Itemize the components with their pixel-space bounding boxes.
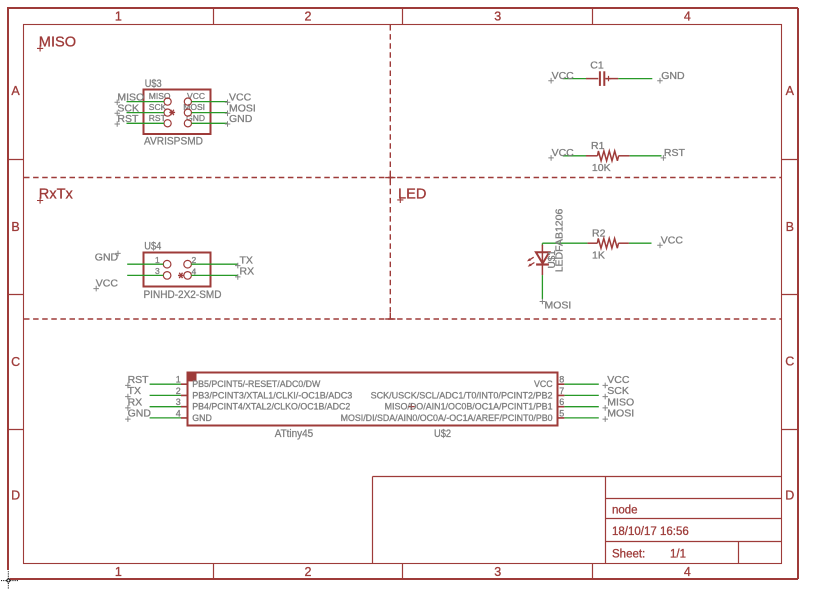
svg-text:6: 6 [559, 397, 564, 407]
U$3 origin star [169, 110, 175, 115]
C1 left lead [586, 78, 598, 80]
svg-text:MOSI: MOSI [183, 102, 205, 112]
svg-text:U$2: U$2 [434, 428, 451, 440]
LED arrow 2 [529, 263, 534, 266]
wire VCC to C1 [563, 78, 586, 80]
wire U$2 pin7 to SCK [564, 394, 598, 396]
svg-text:D: D [11, 489, 20, 503]
wire U$3 to MOSI [192, 112, 228, 114]
wire GND to U$4 pin1 [127, 263, 163, 265]
LED U$1 LEDFAB1206 [527, 209, 566, 276]
print registration mark bottom-left [1, 571, 18, 588]
svg-text:TX: TX [128, 385, 141, 397]
svg-text:GND: GND [192, 413, 212, 423]
svg-text:MISO: MISO [39, 34, 76, 50]
net label SCK [115, 103, 139, 117]
U$2 pin stubs right [557, 384, 564, 418]
svg-text:VCC: VCC [552, 147, 575, 159]
frame bottom column ticks [214, 564, 593, 580]
U$2 corner square [188, 372, 197, 381]
svg-text:PINHD-2X2-SMD: PINHD-2X2-SMD [144, 289, 222, 301]
title block outline [373, 477, 782, 564]
R1 right lead [619, 155, 630, 157]
dashed separator vertical [389, 25, 391, 319]
R1 zigzag [598, 151, 619, 161]
wire RST to U$3 [127, 122, 165, 124]
svg-text:MOSI: MOSI [607, 408, 634, 420]
svg-text:RST: RST [128, 374, 150, 386]
svg-text:RX: RX [240, 266, 255, 278]
LED bottom lead [541, 265, 543, 276]
net label MISO at U$2 [603, 396, 635, 410]
net label TX at U$2 [125, 385, 141, 399]
resistor R1 [586, 140, 630, 174]
wire VCC to R1 [563, 155, 586, 157]
svg-text:1: 1 [176, 375, 181, 385]
LED triangle [536, 252, 549, 263]
svg-text:VCC: VCC [552, 70, 575, 82]
svg-text:MISO/DO/AIN1/OC0B/OC1A/PCINT1/: MISO/DO/AIN1/OC0B/OC1A/PCINT1/PB1 [385, 402, 553, 412]
svg-text:PB5/PCINT5/-RESET/ADC0/DW: PB5/PCINT5/-RESET/ADC0/DW [192, 379, 321, 389]
wire R2 to VCC [629, 242, 652, 244]
svg-text:3: 3 [176, 397, 181, 407]
wire LED to MOSI [541, 275, 543, 299]
svg-text:1K: 1K [592, 250, 605, 262]
wire U$2 pin8 to VCC [564, 383, 598, 385]
net label MOSI at U$2 [603, 408, 635, 422]
wire RX to U$2 pin3 [150, 406, 181, 408]
net label VCC at R2 [657, 235, 683, 249]
IC U$2 ATtiny45 [176, 372, 565, 440]
svg-text:LEDFAB1206: LEDFAB1206 [554, 209, 566, 273]
frame row letters right [785, 84, 794, 503]
C1 right lead [605, 78, 618, 80]
net label RX at U$2 [125, 396, 142, 410]
wire R1 to RST [630, 155, 662, 157]
svg-text:R1: R1 [591, 140, 605, 152]
svg-text:GND: GND [661, 70, 685, 82]
wire MISO to U$3 [127, 101, 165, 103]
net label TX [235, 255, 253, 269]
net label GND right of U$3 [225, 113, 253, 127]
dashed separator horizontal 1 [24, 177, 782, 179]
svg-text:SCK/USCK/SCL/ADC1/T0/INT0/PCIN: SCK/USCK/SCL/ADC1/T0/INT0/PCINT2/PB2 [371, 390, 553, 400]
svg-text:7: 7 [559, 386, 564, 396]
net label RST at R1 [661, 147, 686, 161]
svg-text:C1: C1 [590, 59, 604, 71]
net label GND at C1 [657, 70, 685, 84]
section label LED [397, 187, 426, 204]
frame column numbers top [115, 9, 691, 23]
svg-text:SCK: SCK [607, 385, 629, 397]
svg-text:B: B [786, 220, 794, 234]
U$3 pin circles [164, 98, 171, 105]
svg-text:VCC: VCC [661, 235, 684, 247]
svg-text:TX: TX [240, 255, 253, 267]
wire C1 to GND [618, 78, 652, 80]
C1 plate 2 [603, 71, 605, 86]
wire RST to U$2 pin1 [150, 383, 181, 385]
svg-text:C: C [11, 355, 20, 369]
R2 right lead [618, 242, 629, 244]
svg-text:VCC: VCC [96, 278, 119, 290]
dashed crossing plus [385, 173, 395, 320]
wire U$4 pin2 to TX [191, 263, 238, 265]
svg-text:18/10/17 16:56: 18/10/17 16:56 [612, 526, 689, 538]
C1 origin cross [606, 76, 611, 81]
net label VCC right of U$3 [225, 92, 252, 106]
svg-text:1/1: 1/1 [670, 549, 686, 561]
U$4 box [144, 253, 211, 287]
net label VCC at R1 [548, 147, 574, 161]
svg-text:4: 4 [684, 9, 691, 23]
net label VCC at C1 [548, 70, 574, 84]
wire U$3 to VCC [192, 101, 228, 103]
R2 zigzag [597, 238, 618, 248]
svg-text:B: B [11, 220, 19, 234]
LED top lead [541, 245, 543, 264]
svg-text:8: 8 [559, 375, 564, 385]
capacitor C1 [586, 59, 618, 86]
LED cathode bar [536, 263, 549, 265]
svg-text:1: 1 [115, 9, 122, 23]
svg-text:MOSI/DI/SDA/AIN0/OC0A/-OC1A/AR: MOSI/DI/SDA/AIN0/OC0A/-OC1A/AREF/PCINT0/… [341, 413, 553, 423]
svg-text:node: node [612, 505, 638, 517]
svg-text:VCC: VCC [187, 91, 205, 101]
R1 left lead [586, 155, 598, 157]
svg-text:4: 4 [684, 565, 691, 579]
R2 left lead [587, 242, 597, 244]
resistor R2 [587, 228, 629, 262]
wire U$2 pin5 to MOSI [564, 417, 598, 419]
U$4 origin cross [178, 273, 184, 278]
net label RX [235, 266, 254, 280]
wire VCC to U$4 pin3 [127, 274, 163, 276]
frame right row ticks [782, 160, 799, 430]
svg-text:Sheet:: Sheet: [612, 549, 645, 561]
U$2 pin stubs left [181, 384, 188, 418]
net label VCC at U$2 [603, 374, 630, 388]
connector U$3 AVRISPSMD [144, 78, 211, 147]
net label MISO [115, 92, 145, 106]
svg-text:2: 2 [176, 386, 181, 396]
svg-text:5: 5 [559, 408, 564, 418]
svg-text:C: C [785, 354, 794, 368]
frame row letters left [11, 84, 20, 503]
svg-text:4: 4 [176, 408, 181, 418]
svg-text:D: D [785, 489, 794, 503]
svg-text:RST: RST [664, 147, 686, 159]
svg-text:RX: RX [128, 396, 143, 408]
U$4 pin circles [163, 260, 171, 268]
wire U$4 pin4 to RX [191, 274, 238, 276]
net label GND at U$2 [125, 408, 151, 422]
wire GND to U$2 pin4 [150, 417, 181, 419]
net label VCC at U$4 [93, 278, 118, 292]
net label MOSI at LED [540, 299, 572, 312]
svg-text:VCC: VCC [607, 374, 630, 386]
section label MISO [37, 34, 76, 51]
wire U$3 to GND [192, 122, 228, 124]
svg-text:3: 3 [494, 9, 501, 23]
svg-text:PB3/PCINT3/XTAL1/CLKI/-OC1B/AD: PB3/PCINT3/XTAL1/CLKI/-OC1B/ADC3 [192, 390, 352, 400]
U$3 box [144, 90, 211, 135]
wire SCK to U$3 [127, 112, 165, 114]
svg-text:ATtiny45: ATtiny45 [275, 428, 314, 440]
svg-text:3: 3 [155, 266, 160, 276]
svg-text:GND: GND [128, 408, 152, 420]
net label MOSI right of U$3 [225, 103, 256, 117]
svg-text:GND: GND [95, 252, 119, 264]
svg-text:A: A [786, 84, 795, 98]
frame left row ticks [8, 160, 24, 430]
svg-text:2: 2 [305, 9, 312, 23]
LED arrow 1 [529, 257, 534, 260]
svg-text:MISO: MISO [607, 396, 634, 408]
frame top column ticks [214, 8, 593, 25]
U$2 box [188, 373, 558, 426]
net label GND at U$4 [95, 251, 121, 264]
frame column numbers bottom [115, 565, 691, 579]
wire U$2 pin6 to MISO [564, 406, 598, 408]
svg-text:3: 3 [494, 565, 501, 579]
title block [373, 477, 782, 564]
svg-text:1: 1 [155, 255, 160, 265]
U$2 origin cross [408, 403, 415, 410]
svg-text:RST: RST [117, 113, 139, 125]
net label SCK at U$2 [603, 385, 629, 399]
svg-text:RST: RST [149, 113, 166, 123]
svg-text:10K: 10K [592, 162, 611, 174]
svg-text:VCC: VCC [534, 379, 553, 389]
svg-text:A: A [11, 84, 20, 98]
dashed separator horizontal 2 [24, 318, 782, 320]
wire down from R2 node [541, 243, 543, 246]
net label RST [115, 113, 139, 127]
svg-text:U$4: U$4 [144, 240, 161, 252]
section label RxTx [37, 187, 74, 204]
svg-text:MOSI: MOSI [545, 299, 572, 311]
svg-text:RxTx: RxTx [39, 187, 74, 203]
svg-text:U$3: U$3 [145, 78, 162, 90]
svg-text:GND: GND [229, 113, 253, 125]
connector U$4 PINHD-2X2-SMD [144, 240, 222, 301]
svg-text:PB4/PCINT4/XTAL2/CLKO/OC1B/ADC: PB4/PCINT4/XTAL2/CLKO/OC1B/ADC2 [192, 402, 350, 412]
svg-text:2: 2 [305, 565, 312, 579]
C1 plate 1 [599, 71, 601, 86]
wire LED node to R2 [542, 242, 587, 244]
net label RST at U$2 [125, 374, 149, 388]
svg-text:1: 1 [115, 565, 122, 579]
wire TX to U$2 pin2 [150, 394, 181, 396]
svg-text:GND: GND [186, 113, 205, 123]
svg-text:MISO: MISO [149, 91, 171, 101]
svg-text:AVRISPSMD: AVRISPSMD [144, 135, 203, 147]
